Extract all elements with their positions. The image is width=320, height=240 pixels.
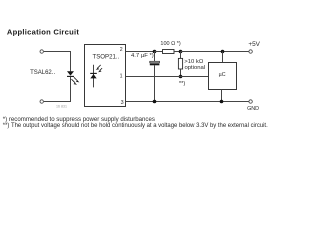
label GND	[247, 106, 259, 112]
wire µC Vcc drop	[222, 52, 224, 63]
svg-text:GND: GND	[247, 106, 259, 112]
wire GND rail from pin3	[126, 101, 249, 103]
svg-text:16 831: 16 831	[56, 105, 67, 109]
svg-text:*) recommended to suppress pow: *) recommended to suppress power supply …	[3, 116, 155, 123]
terminal circle top-left (LED anode input)	[40, 50, 43, 53]
junction node OUT / R2	[179, 75, 183, 79]
photodiode inside TSOP21	[90, 65, 102, 88]
pin number 1	[120, 74, 123, 80]
wire µC ground drop	[221, 90, 223, 102]
wire from top-left terminal to LED branch	[44, 51, 71, 53]
svg-text:4.7 µF *): 4.7 µF *)	[131, 53, 154, 59]
title Application Circuit	[7, 28, 79, 37]
svg-text:2: 2	[120, 47, 123, 53]
label µC	[219, 72, 226, 78]
svg-text:**) The output voltage should: **) The output voltage should not be hol…	[3, 123, 268, 129]
label 100 Ω *)	[160, 41, 180, 47]
svg-text:TSAL62..: TSAL62..	[30, 70, 55, 76]
label TSOP21..	[93, 54, 120, 61]
TSOP21 receiver module box	[85, 45, 126, 107]
svg-text:100 Ω *): 100 Ω *)	[160, 41, 180, 47]
svg-text:**): **)	[179, 81, 186, 87]
svg-text:1: 1	[120, 74, 123, 80]
label >10 kΩ	[184, 59, 204, 65]
label TSAL62..	[30, 70, 55, 76]
label +5V	[248, 41, 260, 48]
pin number 3	[121, 100, 124, 106]
wire +5V rail	[181, 51, 249, 53]
wire vertical LED branch upper	[70, 52, 72, 72]
junction node Vs/C	[153, 50, 157, 54]
svg-text:µC: µC	[219, 72, 226, 78]
wire pin2 Vs to C node	[126, 51, 155, 53]
svg-text:3: 3	[121, 100, 124, 106]
wire bottom-left return	[44, 101, 71, 103]
label 4.7 µF *)	[131, 53, 154, 59]
resistor R2 >10kΩ pull-up	[178, 52, 182, 77]
terminal circle GND	[249, 100, 252, 103]
junction node C / GND	[153, 100, 157, 104]
svg-text:optional: optional	[185, 65, 206, 71]
terminal circle +5V	[249, 50, 252, 53]
svg-text:Application Circuit: Application Circuit	[7, 28, 79, 37]
pin number 2	[120, 47, 123, 53]
LED D1 TSAL62 (emitter diode)	[67, 71, 79, 85]
label optional	[185, 65, 206, 71]
microcontroller box µC	[209, 63, 237, 90]
svg-text:+5V: +5V	[248, 41, 260, 48]
wire vertical LED branch lower	[70, 77, 72, 102]
footnote 2	[3, 123, 268, 129]
terminal circle bottom-left (LED cathode return)	[40, 100, 43, 103]
wire pin1 OUT to µC	[126, 76, 209, 78]
capacitor C1 4.7µF	[150, 52, 160, 102]
svg-text:TSOP21..: TSOP21..	[93, 54, 120, 61]
label **)	[179, 81, 186, 87]
junction node R1 / R2	[179, 50, 183, 54]
footnote 1	[3, 116, 155, 123]
junction node Vcc µC	[221, 50, 225, 54]
figure number 16831	[56, 105, 67, 109]
junction node µC / GND	[220, 100, 224, 104]
resistor R1 100Ω	[155, 50, 181, 54]
